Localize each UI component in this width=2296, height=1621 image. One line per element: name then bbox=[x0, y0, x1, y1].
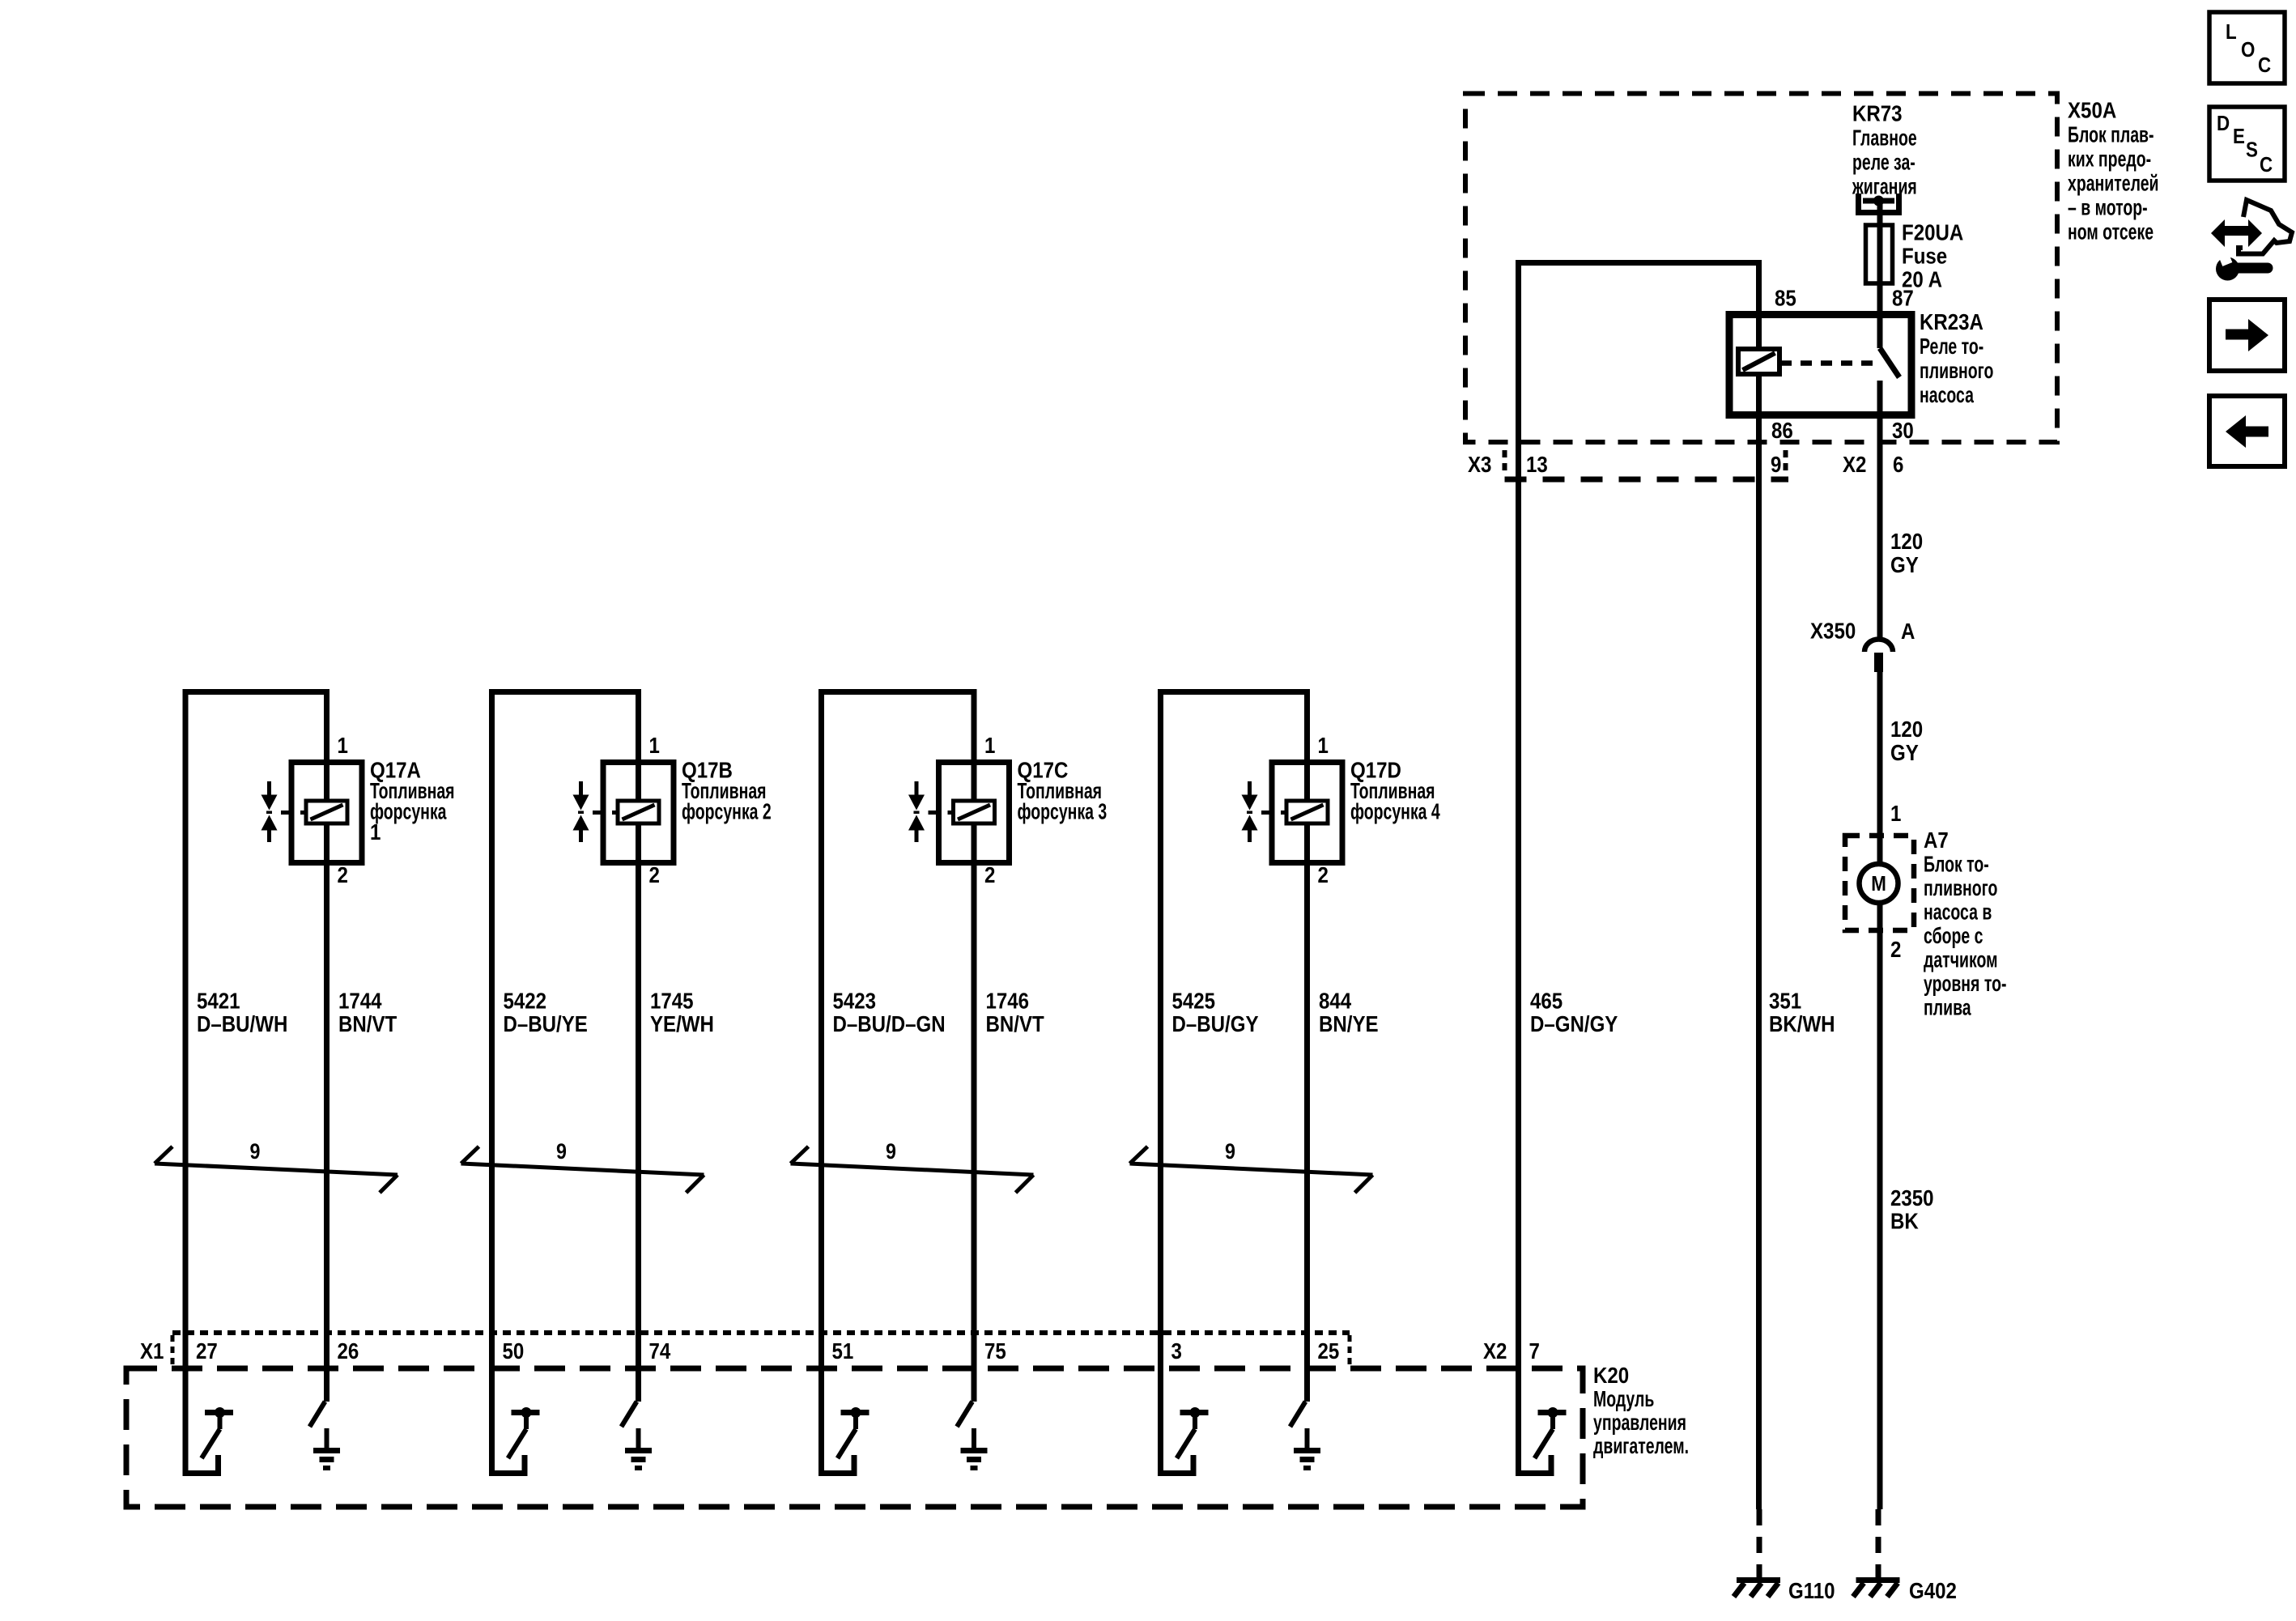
svg-text:BN/VT: BN/VT bbox=[986, 1010, 1044, 1036]
svg-text:X2: X2 bbox=[1483, 1338, 1507, 1364]
svg-text:51: 51 bbox=[832, 1338, 854, 1364]
svg-text:G110: G110 bbox=[1788, 1577, 1835, 1603]
svg-text:75: 75 bbox=[984, 1338, 1006, 1364]
svg-text:ном отсеке: ном отсеке bbox=[2068, 219, 2154, 245]
svg-text:2: 2 bbox=[338, 862, 348, 887]
svg-text:5425: 5425 bbox=[1172, 988, 1216, 1014]
svg-text:2: 2 bbox=[649, 862, 660, 887]
svg-text:форсунка 4: форсунка 4 bbox=[1350, 799, 1440, 824]
svg-text:Главное: Главное bbox=[1852, 126, 1917, 151]
svg-text:X2: X2 bbox=[1843, 451, 1866, 477]
svg-text:M: M bbox=[1871, 872, 1886, 896]
svg-text:74: 74 bbox=[649, 1338, 671, 1364]
svg-text:1746: 1746 bbox=[986, 988, 1030, 1014]
svg-text:Модуль: Модуль bbox=[1593, 1387, 1654, 1412]
svg-text:BN/YE: BN/YE bbox=[1319, 1010, 1379, 1036]
svg-text:S: S bbox=[2246, 138, 2258, 162]
svg-text:50: 50 bbox=[503, 1338, 525, 1364]
svg-text:5423: 5423 bbox=[833, 988, 877, 1014]
svg-text:YE/WH: YE/WH bbox=[650, 1010, 714, 1036]
svg-text:ких предо-: ких предо- bbox=[2068, 147, 2151, 172]
svg-text:D–BU/GY: D–BU/GY bbox=[1172, 1010, 1259, 1036]
svg-text:– в мотор-: – в мотор- bbox=[2068, 195, 2148, 220]
svg-text:Реле то-: Реле то- bbox=[1920, 334, 1983, 360]
svg-text:1: 1 bbox=[1890, 800, 1901, 826]
svg-text:3: 3 bbox=[1171, 1338, 1182, 1364]
svg-text:27: 27 bbox=[196, 1338, 218, 1364]
svg-text:K20: K20 bbox=[1593, 1362, 1629, 1388]
svg-text:форсунка: форсунка bbox=[370, 799, 447, 824]
svg-text:GY: GY bbox=[1890, 739, 1919, 765]
svg-text:120: 120 bbox=[1890, 528, 1923, 554]
svg-text:G402: G402 bbox=[1909, 1577, 1957, 1603]
svg-text:D–GN/GY: D–GN/GY bbox=[1530, 1010, 1618, 1036]
svg-text:A: A bbox=[1901, 618, 1915, 644]
svg-text:F20UA: F20UA bbox=[1902, 219, 1963, 245]
svg-text:1: 1 bbox=[1318, 732, 1329, 758]
svg-text:L: L bbox=[2226, 20, 2237, 44]
svg-text:форсунка 2: форсунка 2 bbox=[682, 799, 772, 824]
svg-text:9: 9 bbox=[886, 1139, 896, 1164]
svg-text:1745: 1745 bbox=[650, 988, 694, 1014]
svg-text:X350: X350 bbox=[1810, 618, 1856, 644]
svg-text:D–BU/WH: D–BU/WH bbox=[197, 1010, 287, 1036]
svg-text:KR23A: KR23A bbox=[1920, 308, 1983, 334]
svg-text:X3: X3 bbox=[1468, 451, 1491, 477]
svg-text:X50A: X50A bbox=[2068, 97, 2116, 123]
svg-text:844: 844 bbox=[1319, 988, 1352, 1014]
svg-text:1: 1 bbox=[649, 732, 660, 758]
svg-text:O: O bbox=[2241, 38, 2255, 62]
svg-text:465: 465 bbox=[1530, 988, 1563, 1014]
svg-text:E: E bbox=[2233, 125, 2245, 148]
svg-text:9: 9 bbox=[250, 1139, 261, 1164]
svg-text:351: 351 bbox=[1769, 988, 1801, 1014]
svg-text:D–BU/YE: D–BU/YE bbox=[504, 1010, 588, 1036]
svg-text:BK: BK bbox=[1890, 1208, 1919, 1234]
svg-text:GY: GY bbox=[1890, 551, 1919, 577]
svg-text:жигания: жигания bbox=[1852, 174, 1917, 199]
svg-text:86: 86 bbox=[1771, 417, 1793, 443]
svg-text:BK/WH: BK/WH bbox=[1769, 1010, 1835, 1036]
svg-text:6: 6 bbox=[1893, 451, 1903, 477]
svg-text:насоса в: насоса в bbox=[1924, 900, 1992, 925]
svg-text:X1: X1 bbox=[140, 1338, 164, 1364]
svg-text:9: 9 bbox=[1771, 451, 1781, 477]
svg-text:KR73: KR73 bbox=[1852, 100, 1903, 126]
svg-text:Блок плав-: Блок плав- bbox=[2068, 122, 2154, 147]
svg-text:BN/VT: BN/VT bbox=[338, 1010, 397, 1036]
svg-text:2350: 2350 bbox=[1890, 1185, 1934, 1210]
svg-text:датчиком: датчиком bbox=[1924, 947, 1997, 972]
svg-text:2: 2 bbox=[1890, 936, 1901, 962]
svg-text:насоса: насоса bbox=[1920, 383, 1974, 408]
svg-text:Блок то-: Блок то- bbox=[1924, 852, 1989, 877]
svg-text:уровня то-: уровня то- bbox=[1924, 972, 2006, 997]
svg-text:реле за-: реле за- bbox=[1852, 150, 1915, 175]
svg-text:5422: 5422 bbox=[504, 988, 547, 1014]
svg-text:26: 26 bbox=[338, 1338, 359, 1364]
svg-text:D–BU/D–GN: D–BU/D–GN bbox=[833, 1010, 946, 1036]
svg-text:7: 7 bbox=[1529, 1338, 1540, 1364]
svg-text:120: 120 bbox=[1890, 716, 1923, 742]
svg-text:хранителей: хранителей bbox=[2068, 171, 2158, 196]
svg-text:C: C bbox=[2258, 53, 2271, 77]
svg-text:1: 1 bbox=[984, 732, 995, 758]
svg-text:пливного: пливного bbox=[1924, 876, 1997, 901]
svg-text:Fuse: Fuse bbox=[1902, 243, 1947, 269]
svg-text:85: 85 bbox=[1775, 285, 1796, 311]
svg-text:1744: 1744 bbox=[338, 988, 382, 1014]
svg-text:30: 30 bbox=[1892, 417, 1914, 443]
svg-text:25: 25 bbox=[1318, 1338, 1340, 1364]
svg-text:1: 1 bbox=[338, 732, 348, 758]
svg-text:2: 2 bbox=[1318, 862, 1329, 887]
svg-text:9: 9 bbox=[556, 1139, 567, 1164]
svg-text:двигателем.: двигателем. bbox=[1593, 1434, 1689, 1459]
svg-text:форсунка 3: форсунка 3 bbox=[1018, 799, 1108, 824]
svg-text:2: 2 bbox=[984, 862, 995, 887]
svg-text:управления: управления bbox=[1593, 1410, 1686, 1436]
svg-text:D: D bbox=[2217, 112, 2230, 135]
svg-text:C: C bbox=[2260, 153, 2273, 177]
svg-text:A7: A7 bbox=[1924, 827, 1949, 853]
svg-text:87: 87 bbox=[1892, 285, 1914, 311]
svg-text:9: 9 bbox=[1225, 1139, 1235, 1164]
svg-text:5421: 5421 bbox=[197, 988, 240, 1014]
svg-text:13: 13 bbox=[1526, 451, 1548, 477]
svg-text:плива: плива bbox=[1924, 995, 1971, 1020]
svg-text:1: 1 bbox=[370, 819, 381, 845]
svg-text:сборе с: сборе с bbox=[1924, 924, 1983, 949]
svg-text:пливного: пливного bbox=[1920, 359, 1993, 384]
